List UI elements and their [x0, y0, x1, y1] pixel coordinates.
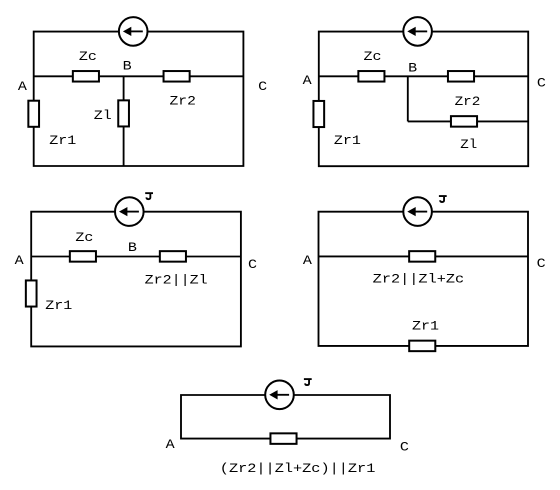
svg-text:A: A [166, 438, 176, 452]
svg-text:Zr1: Zr1 [45, 299, 72, 313]
svg-text:B: B [123, 59, 133, 73]
svg-text:Zc: Zc [79, 50, 97, 64]
svg-text:C: C [537, 77, 547, 91]
svg-text:(Zr2||Zl+Zc)||Zr1: (Zr2||Zl+Zc)||Zr1 [220, 462, 376, 476]
svg-text:Zr2||Zl: Zr2||Zl [145, 274, 208, 288]
svg-text:Zr2: Zr2 [455, 95, 481, 109]
svg-text:A: A [303, 74, 313, 88]
svg-text:Zl: Zl [94, 109, 112, 123]
svg-text:C: C [537, 257, 547, 271]
svg-text:C: C [258, 80, 268, 94]
svg-text:Zr1: Zr1 [49, 134, 76, 148]
svg-text:B: B [128, 241, 138, 255]
svg-text:A: A [15, 254, 25, 268]
svg-text:A: A [303, 254, 313, 268]
svg-text:C: C [248, 258, 258, 272]
svg-text:Zc: Zc [75, 231, 93, 245]
svg-text:A: A [18, 80, 28, 94]
svg-text:Zr2: Zr2 [170, 94, 196, 108]
svg-text:B: B [408, 62, 418, 76]
svg-text:Zc: Zc [364, 50, 382, 64]
svg-text:Zl: Zl [460, 138, 477, 152]
svg-text:Zr1: Zr1 [412, 320, 439, 334]
svg-text:C: C [400, 441, 410, 455]
svg-text:Zr2||Zl+Zc: Zr2||Zl+Zc [373, 272, 465, 286]
svg-text:Zr1: Zr1 [334, 134, 361, 148]
